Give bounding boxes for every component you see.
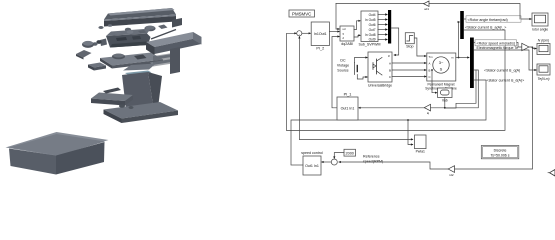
base box right face	[56, 142, 105, 175]
wire gain to N scope	[529, 47, 537, 50]
label reference speed	[363, 155, 383, 164]
machine top cover right step block	[172, 18, 182, 28]
spindle assembly slot 1	[116, 37, 127, 41]
mux bar gates	[388, 10, 391, 44]
svg-text:Tm: Tm	[429, 55, 434, 59]
scope N rpm	[537, 39, 550, 55]
svg-text:speed(RPM): speed(RPM)	[363, 160, 383, 164]
small block part under cover	[158, 25, 168, 30]
base plate front face	[122, 111, 179, 124]
svg-text:Out9: Out9	[369, 37, 376, 41]
svg-text:dq2ABl: dq2ABl	[341, 42, 353, 46]
block Sub_SVPWM	[359, 11, 381, 47]
spindle assembly bump 2	[127, 30, 134, 33]
spindle nose block	[100, 39, 107, 47]
svg-text:<Stator current is_q(A): <Stator current is_q(A)	[484, 69, 520, 73]
scope Te	[537, 64, 550, 81]
svg-text:Pwia1: Pwia1	[416, 150, 425, 154]
tiny screw part 1	[98, 26, 103, 29]
base box top face	[9, 134, 105, 156]
small block left of saddle	[88, 63, 106, 68]
svg-text:A: A	[429, 62, 431, 66]
wire PI_2 to dq2AB	[329, 30, 340, 32]
svg-text:id2: id2	[449, 173, 453, 177]
spindle assembly dark underside	[110, 42, 148, 48]
wire m branch to bus1	[458, 21, 461, 58]
column sloped side face	[148, 72, 162, 108]
base box flange lip	[6, 132, 109, 156]
svg-text:B: B	[429, 69, 431, 73]
wire rotor angle to scope	[464, 18, 532, 20]
spindle assembly slot 2	[132, 36, 141, 40]
wire stator q current feedback	[358, 70, 478, 109]
PMSMVC title box	[289, 10, 315, 17]
svg-text:Source: Source	[337, 69, 348, 73]
DC source battery symbol	[355, 56, 369, 79]
spindle small cylinder 2	[92, 42, 97, 45]
svg-text:In Out8: In Out8	[365, 33, 376, 37]
right beam top face	[146, 32, 202, 47]
machine top cover back rim highlight	[108, 8, 175, 16]
gain iq on feedback wire	[424, 104, 430, 115]
svg-text:Reference: Reference	[363, 155, 380, 159]
right beam front face	[155, 37, 202, 54]
svg-text:In Out5: In Out5	[365, 18, 376, 22]
block PI_1	[337, 93, 358, 121]
part on saddle block	[134, 55, 147, 60]
svg-text:2000: 2000	[345, 151, 353, 155]
block PI_2 current regulator	[311, 22, 329, 51]
block Discrete powergui	[481, 146, 519, 159]
scope rotor angle	[532, 13, 548, 32]
wire Step to PMSM Tm	[414, 38, 427, 57]
svg-text:<Rotor angle thetam(rad): <Rotor angle thetam(rad)	[468, 18, 508, 22]
wire sum2 to speed controller	[321, 161, 331, 163]
wire long feedback to Pwia1 in1	[299, 138, 413, 140]
svg-text:PI_1: PI_1	[344, 93, 352, 97]
wedge part above table	[103, 88, 121, 94]
sum junction S1	[297, 31, 302, 36]
machine top cover front edge highlight	[104, 15, 176, 22]
wire PI_1 output up to dq2AB q input	[332, 35, 340, 107]
motor part left ellipse	[82, 41, 94, 48]
DC voltage source label	[337, 59, 349, 73]
svg-text:B: B	[389, 69, 391, 73]
wire speed controller output up	[291, 164, 303, 166]
gain id2 on bottom wire	[448, 166, 454, 177]
base plate front left face	[104, 110, 122, 124]
block speed controller	[303, 156, 321, 175]
block Vab measurement	[438, 88, 452, 103]
wires SVPWM outputs to mux	[378, 13, 388, 40]
wire PMSM m to bus2	[456, 56, 470, 58]
svg-text:UniversalBridge: UniversalBridge	[368, 84, 392, 88]
svg-text:Out1 In1: Out1 In1	[305, 164, 319, 168]
column top face	[123, 64, 156, 71]
tiny screw part 2	[108, 24, 112, 27]
base knob 1	[119, 104, 125, 107]
spindle assembly bump 1	[115, 31, 121, 34]
cross table right edge	[125, 95, 133, 106]
label rotor speed boxed	[475, 40, 517, 46]
bracket finger upper	[150, 54, 175, 60]
base box front left face	[9, 149, 56, 175]
wire sum1 bottom input feedback	[298, 36, 300, 139]
svg-text:Out6: Out6	[369, 23, 376, 27]
thin rod diagonal	[151, 30, 176, 40]
part on saddle ellipse	[112, 54, 125, 60]
svg-text:N (rpm): N (rpm)	[538, 39, 550, 43]
spindle nose cylinder	[96, 40, 101, 44]
bus selector bar1	[460, 11, 464, 39]
svg-text:3~: 3~	[439, 60, 444, 65]
wire theta feedback loop top	[336, 4, 520, 20]
wire mux to bridge gate	[391, 28, 399, 56]
spindle assembly bump 3	[138, 30, 147, 34]
svg-text:iq: iq	[427, 111, 430, 115]
wire branch to Pwia1 in2	[407, 119, 413, 145]
bus selector bar2	[470, 38, 474, 89]
bracket body	[153, 53, 176, 67]
wire rotor speed to gain	[474, 43, 522, 48]
svg-text:Out1 In1: Out1 In1	[341, 106, 355, 110]
block dq2AB transform	[340, 26, 354, 46]
saddle plate front face	[112, 60, 163, 69]
block Step torque	[405, 33, 414, 49]
saddle plate top face	[100, 53, 163, 66]
svg-text:DC: DC	[340, 59, 346, 63]
left lower small part	[76, 50, 92, 58]
teal accent sliver	[125, 71, 152, 76]
wire dq2AB out2 to SVPWM in2	[354, 34, 361, 37]
block Pwia1 scope	[415, 135, 427, 154]
block UniversalBridge	[368, 52, 392, 88]
wire theta feedback into dq2AB top	[336, 4, 340, 31]
wire phase tap to Vab	[431, 69, 438, 94]
block constant 2000	[344, 149, 356, 156]
svg-text:Out4: Out4	[369, 13, 376, 17]
svg-text:PI_2: PI_2	[316, 47, 324, 51]
svg-text:Out7: Out7	[369, 28, 376, 32]
small part ellipse under cover	[144, 26, 155, 32]
wire electromagnetic torque to Te scope	[474, 50, 537, 71]
svg-text:A: A	[389, 62, 391, 66]
saddle plate front left face	[100, 58, 112, 69]
machine top cover front face	[104, 16, 176, 27]
right beam right end face	[193, 32, 202, 45]
right beam left end face	[146, 42, 155, 55]
svg-text:<stator current is_d(A)>: <stator current is_d(A)>	[487, 79, 525, 83]
svg-text:S: S	[440, 67, 443, 72]
gain ud1	[424, 1, 430, 11]
svg-text:<Stator current is_a(A)\_>: <Stator current is_a(A)\_>	[465, 26, 506, 30]
base knob 2	[129, 106, 134, 109]
wire sum1 to PI_2	[302, 32, 311, 34]
wire dq2AB out1 to SVPWM in1	[354, 20, 361, 30]
label stator current d	[487, 79, 525, 83]
spindle assembly main body	[106, 34, 151, 48]
svg-text:Vlotage: Vlotage	[337, 64, 349, 68]
label stator current q	[484, 69, 520, 73]
svg-text:In1Out1: In1Out1	[314, 32, 327, 36]
column front face	[122, 72, 153, 109]
label speed control	[301, 151, 323, 155]
wire stator current ia feedback	[287, 30, 505, 130]
wire stator d current feedback	[291, 80, 486, 165]
sum junction S2	[331, 159, 337, 165]
svg-text:Discrete: Discrete	[494, 148, 507, 152]
wire 2000 to sum2	[333, 153, 344, 159]
svg-text:<Rotor speed wm(rad/s): <Rotor speed wm(rad/s)	[477, 42, 516, 46]
svg-text:rotor angle: rotor angle	[532, 28, 548, 32]
svg-text:PMSMVC: PMSMVC	[292, 11, 311, 16]
machine top cover top face	[104, 8, 176, 20]
spindle assembly top face	[106, 29, 151, 37]
svg-text:speed control: speed control	[301, 151, 323, 155]
svg-text:Ts=50.006 s: Ts=50.006 s	[491, 153, 510, 157]
bracket finger lower	[150, 59, 175, 65]
base plate top face	[104, 102, 179, 119]
svg-text:Stop: Stop	[406, 44, 413, 48]
label electromagnetic torque	[477, 46, 519, 50]
wires bridge phases to PMSM	[392, 62, 427, 78]
tiny part left of small block	[125, 28, 131, 32]
label stator current ia	[465, 26, 506, 30]
svg-text:ud1: ud1	[424, 7, 429, 11]
wire Vab down to pwm scope area	[444, 70, 476, 109]
svg-text:Electromagnetic torque Te: Electromagnetic torque Te	[477, 46, 519, 50]
wire speed feedback bottom	[338, 47, 532, 169]
svg-text:C: C	[429, 75, 431, 79]
vertical post under beam	[170, 47, 180, 74]
cross table front left	[91, 99, 125, 106]
gain mark bottom right corner	[548, 170, 555, 177]
wire sum1 left input feedback	[287, 32, 297, 130]
svg-text:Sub_SVPWM: Sub_SVPWM	[359, 43, 381, 47]
svg-text:Te(N.m): Te(N.m)	[537, 77, 549, 81]
label rotor angle signal	[466, 16, 521, 22]
gain rpm	[522, 43, 529, 50]
svg-text:-: -	[299, 32, 300, 36]
cross table top face	[91, 93, 133, 102]
block PMSM	[425, 53, 457, 91]
